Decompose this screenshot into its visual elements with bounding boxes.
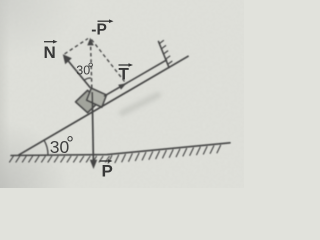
vector N: [65, 57, 91, 88]
big 30-degree arc at apex: [44, 140, 48, 155]
dashed parallelogram side: -P tip to T tip: [92, 40, 125, 82]
incline surface line: [19, 56, 188, 155]
ground line: [11, 143, 230, 156]
ground hatching right: [108, 145, 221, 164]
dashed parallelogram side: N tip to -P tip: [65, 39, 89, 55]
vector -P dashed: [91, 44, 92, 88]
vector T arrowhead: [118, 83, 126, 89]
vector P (weight): [92, 92, 93, 162]
ground hatching left: [9, 156, 109, 162]
anchor bar: [159, 42, 170, 68]
faint bleed-through smudge: [122, 95, 158, 113]
anchor wall hatching: [159, 40, 172, 64]
paper background: [0, 0, 244, 188]
small 30-degree arc at block: [84, 78, 91, 80]
block lower-left square: [76, 90, 100, 112]
rope to anchor: [105, 60, 167, 96]
block upper-right square: [87, 88, 107, 107]
